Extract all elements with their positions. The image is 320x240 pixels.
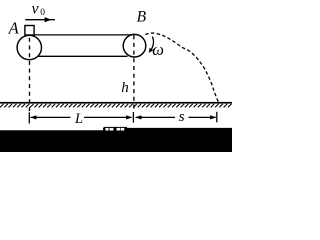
dimension line s left segment: [136, 116, 175, 118]
svg-text:h: h: [121, 80, 129, 96]
black redaction bar: [0, 128, 232, 152]
dashed trajectory from B: [145, 33, 218, 102]
dimension line s right segment: [189, 116, 216, 118]
svg-text:0: 0: [40, 8, 45, 18]
rotation arrow at B: [149, 37, 154, 53]
svg-text:ω: ω: [152, 40, 164, 59]
svg-text:B: B: [137, 8, 147, 25]
ground hatching: [0, 104, 232, 107]
svg-text:L: L: [74, 111, 83, 127]
dimension line L left segment: [31, 116, 71, 118]
dimension line L right segment: [84, 116, 132, 118]
cylinder end A circle: [17, 35, 41, 59]
tick at landing point: [216, 112, 218, 123]
dashed axis through A: [29, 38, 31, 113]
svg-text:v: v: [32, 0, 40, 17]
partial caption glyphs (tops of Chinese characters): [104, 127, 127, 131]
tick below B: [132, 112, 134, 123]
svg-text:A: A: [8, 19, 20, 38]
label v0: [32, 0, 46, 17]
block on cylinder at A: [25, 26, 34, 36]
dimension line L right arrowhead: [126, 115, 132, 119]
cylinder top edge: [34, 34, 131, 36]
ground line: [0, 102, 232, 104]
dimension line s left arrowhead: [135, 115, 141, 119]
dimension line s right arrowhead: [210, 115, 216, 119]
cylinder bottom edge: [37, 55, 128, 57]
velocity arrow v0: [25, 17, 55, 22]
tick at A position: [28, 112, 30, 123]
cylinder end B circle: [123, 34, 146, 57]
svg-text:s: s: [179, 109, 185, 125]
dashed axis through B: [133, 35, 135, 111]
dimension line L left arrowhead: [30, 115, 36, 119]
